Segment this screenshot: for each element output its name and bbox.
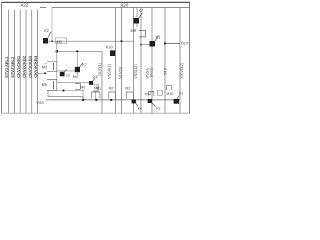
transistor M2 <box>125 87 133 99</box>
wire top bus <box>52 6 190 8</box>
svg-text:CKV3: CKV3 <box>27 66 32 77</box>
wire gate K7 <box>76 51 78 67</box>
svg-text:OUT: OUT <box>181 41 190 45</box>
svg-text:M4: M4 <box>73 75 78 79</box>
svg-text:M0: M0 <box>57 40 62 44</box>
transistor K8 <box>60 69 70 77</box>
svg-text:CKV(12): CKV(12) <box>179 62 184 78</box>
svg-text:ST2: ST2 <box>163 68 168 75</box>
svg-text:CKB2: CKB2 <box>22 55 27 67</box>
svg-text:VSS: VSS <box>36 101 44 105</box>
wire right bus 7 <box>164 7 166 112</box>
wire M5 to VSS <box>48 91 83 100</box>
transistor K6 <box>89 75 98 85</box>
svg-text:M7: M7 <box>109 87 114 91</box>
wire OUT <box>165 42 180 44</box>
wire bottom VSS bus <box>46 99 180 101</box>
svg-text:A22: A22 <box>21 3 29 8</box>
transistor M8 <box>93 85 98 100</box>
svg-text:STV(1): STV(1) <box>117 66 122 79</box>
svg-text:M2: M2 <box>125 87 130 91</box>
node junction bus 1 <box>82 99 84 101</box>
transistor M1 <box>92 87 102 99</box>
transistor K2 <box>43 28 51 44</box>
svg-text:STV1: STV1 <box>4 67 9 78</box>
svg-text:M9: M9 <box>131 28 137 33</box>
wire right bus 1 <box>101 51 103 113</box>
wire left bus STV2 <box>13 10 15 113</box>
svg-text:VSS(12): VSS(12) <box>133 64 138 79</box>
transistor K3 <box>140 34 161 46</box>
transistor K7 <box>75 63 87 75</box>
transistor M9 <box>131 7 146 37</box>
node junction W1/bus3 <box>120 40 122 42</box>
wire right bus 3 <box>121 7 123 112</box>
transistor K1 on line 180 <box>174 91 184 103</box>
svg-text:CKV4: CKV4 <box>33 66 38 77</box>
svg-text:CKB4: CKB4 <box>33 55 38 67</box>
svg-text:K1: K1 <box>179 91 183 95</box>
wire right bus 5 <box>140 7 142 112</box>
svg-text:K4: K4 <box>138 107 142 111</box>
wire W1 <box>48 40 134 42</box>
svg-text:M6: M6 <box>80 85 85 89</box>
wire right bus 4 <box>133 7 135 112</box>
transistor M12 <box>145 92 154 97</box>
svg-text:Ld: Ld <box>66 73 70 77</box>
wire B <box>57 82 89 84</box>
wire right bus 6 <box>151 7 153 112</box>
wire right bus 8 <box>179 7 181 112</box>
wire W2 <box>57 50 102 52</box>
wire M3 gate left <box>37 72 47 74</box>
svg-text:M1: M1 <box>96 87 101 91</box>
svg-text:M5: M5 <box>42 82 48 87</box>
svg-text:SEL2: SEL2 <box>10 56 15 67</box>
wire M5 source right <box>57 90 84 92</box>
svg-text:M10: M10 <box>166 92 173 96</box>
node junction W2/K7 <box>76 50 78 52</box>
transistor K20 <box>106 44 116 56</box>
svg-text:K7: K7 <box>82 63 87 67</box>
wire vertical from W1 <box>56 41 58 62</box>
transistor body line 165 <box>157 86 173 96</box>
node junction M3 gate <box>44 72 46 74</box>
transistor M7 <box>109 87 116 99</box>
svg-text:K7: K7 <box>139 9 144 13</box>
wire left bus CKV1 <box>19 10 21 113</box>
node junction W2 <box>56 50 59 53</box>
wire right bus 2 <box>115 7 117 112</box>
wire left bus CKV3 <box>31 10 33 113</box>
svg-text:CKB3: CKB3 <box>27 55 32 67</box>
node junction M5 wire <box>62 89 64 91</box>
wire top bus left stub <box>40 6 46 8</box>
svg-text:K6: K6 <box>93 75 97 79</box>
wire M3-M5 <box>56 71 58 79</box>
node junction bus 3 <box>110 99 112 101</box>
node junction drop/W1 <box>51 40 53 42</box>
node junction bus 2 <box>95 99 97 101</box>
transistor M6 <box>75 83 85 100</box>
svg-text:K2: K2 <box>44 28 50 33</box>
node junction OUT <box>164 42 166 44</box>
svg-text:M12: M12 <box>145 92 152 96</box>
transistor K4 on line 133.5 <box>132 99 142 110</box>
svg-text:CKB1: CKB1 <box>16 55 21 67</box>
wire left bus STV1 <box>8 10 10 113</box>
svg-text:K20: K20 <box>106 44 114 49</box>
svg-text:CKV2: CKV2 <box>22 66 27 77</box>
svg-text:M3: M3 <box>42 65 48 70</box>
transistor M3 <box>42 62 57 72</box>
svg-text:K5: K5 <box>156 106 160 110</box>
wire A <box>57 70 75 72</box>
svg-text:VSSB(1): VSSB(1) <box>106 63 111 79</box>
svg-text:SEL1: SEL1 <box>4 56 9 67</box>
transistor M5 <box>42 80 57 91</box>
svg-text:K3: K3 <box>156 34 162 39</box>
wire left bus CKV4 <box>36 10 38 113</box>
svg-text:STV2: STV2 <box>10 67 15 78</box>
border frame <box>2 2 191 113</box>
wire M3 drain stub <box>44 62 47 64</box>
wire drop from bus <box>51 7 53 41</box>
transistor K5 on line 152 <box>148 99 161 111</box>
svg-text:A20: A20 <box>121 3 129 8</box>
wire left bus CKV2 <box>25 10 27 113</box>
component M0 box on W1 <box>56 38 67 44</box>
svg-text:(A12): (A12) <box>149 67 154 77</box>
svg-text:CKV1: CKV1 <box>16 66 21 77</box>
